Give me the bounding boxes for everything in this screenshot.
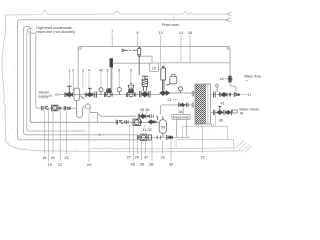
svg-text:33: 33 (160, 155, 164, 159)
svg-text:9: 9 (130, 69, 132, 73)
svg-text:20: 20 (51, 156, 55, 160)
svg-text:21: 21 (167, 98, 171, 102)
svg-text:37: 37 (144, 155, 148, 159)
svg-text:6: 6 (118, 69, 120, 73)
svg-text:31 32: 31 32 (142, 128, 152, 132)
svg-text:supply: supply (38, 94, 49, 98)
svg-text:50: 50 (161, 126, 165, 130)
svg-text:4: 4 (88, 69, 90, 73)
svg-text:7: 7 (111, 30, 113, 34)
svg-text:13: 13 (158, 31, 162, 35)
svg-text:25 26: 25 26 (140, 108, 150, 112)
svg-text:14: 14 (179, 31, 183, 35)
svg-text:41: 41 (220, 102, 224, 106)
svg-text:15: 15 (200, 156, 204, 160)
svg-text:18: 18 (188, 31, 192, 35)
svg-text:1: 1 (68, 69, 70, 73)
svg-text:17: 17 (247, 93, 251, 97)
svg-text:12: 12 (152, 66, 156, 70)
svg-text:34: 34 (178, 110, 182, 114)
svg-text:38: 38 (149, 162, 153, 166)
svg-text:return line (non-flooded): return line (non-flooded) (36, 30, 74, 34)
svg-text:24: 24 (87, 163, 91, 167)
svg-text:Plant room: Plant room (162, 23, 179, 27)
svg-text:28: 28 (131, 162, 135, 166)
svg-text:22: 22 (58, 163, 62, 167)
svg-text:Water flow: Water flow (244, 75, 261, 79)
svg-text:23: 23 (64, 156, 68, 160)
svg-text:35: 35 (140, 162, 144, 166)
svg-text:5: 5 (107, 69, 109, 73)
svg-text:19: 19 (47, 163, 51, 167)
svg-text:27: 27 (127, 155, 131, 159)
svg-text:2: 2 (72, 69, 74, 73)
svg-text:39: 39 (169, 162, 173, 166)
svg-text:16: 16 (219, 77, 223, 81)
svg-text:40: 40 (99, 69, 103, 73)
svg-text:29: 29 (135, 155, 139, 159)
svg-text:8: 8 (136, 31, 138, 35)
svg-text:18: 18 (42, 156, 46, 160)
svg-text:Reservoir: Reservoir (173, 115, 190, 119)
svg-text:36: 36 (218, 118, 222, 122)
svg-text:Water return: Water return (239, 107, 259, 111)
svg-text:3: 3 (82, 69, 84, 73)
